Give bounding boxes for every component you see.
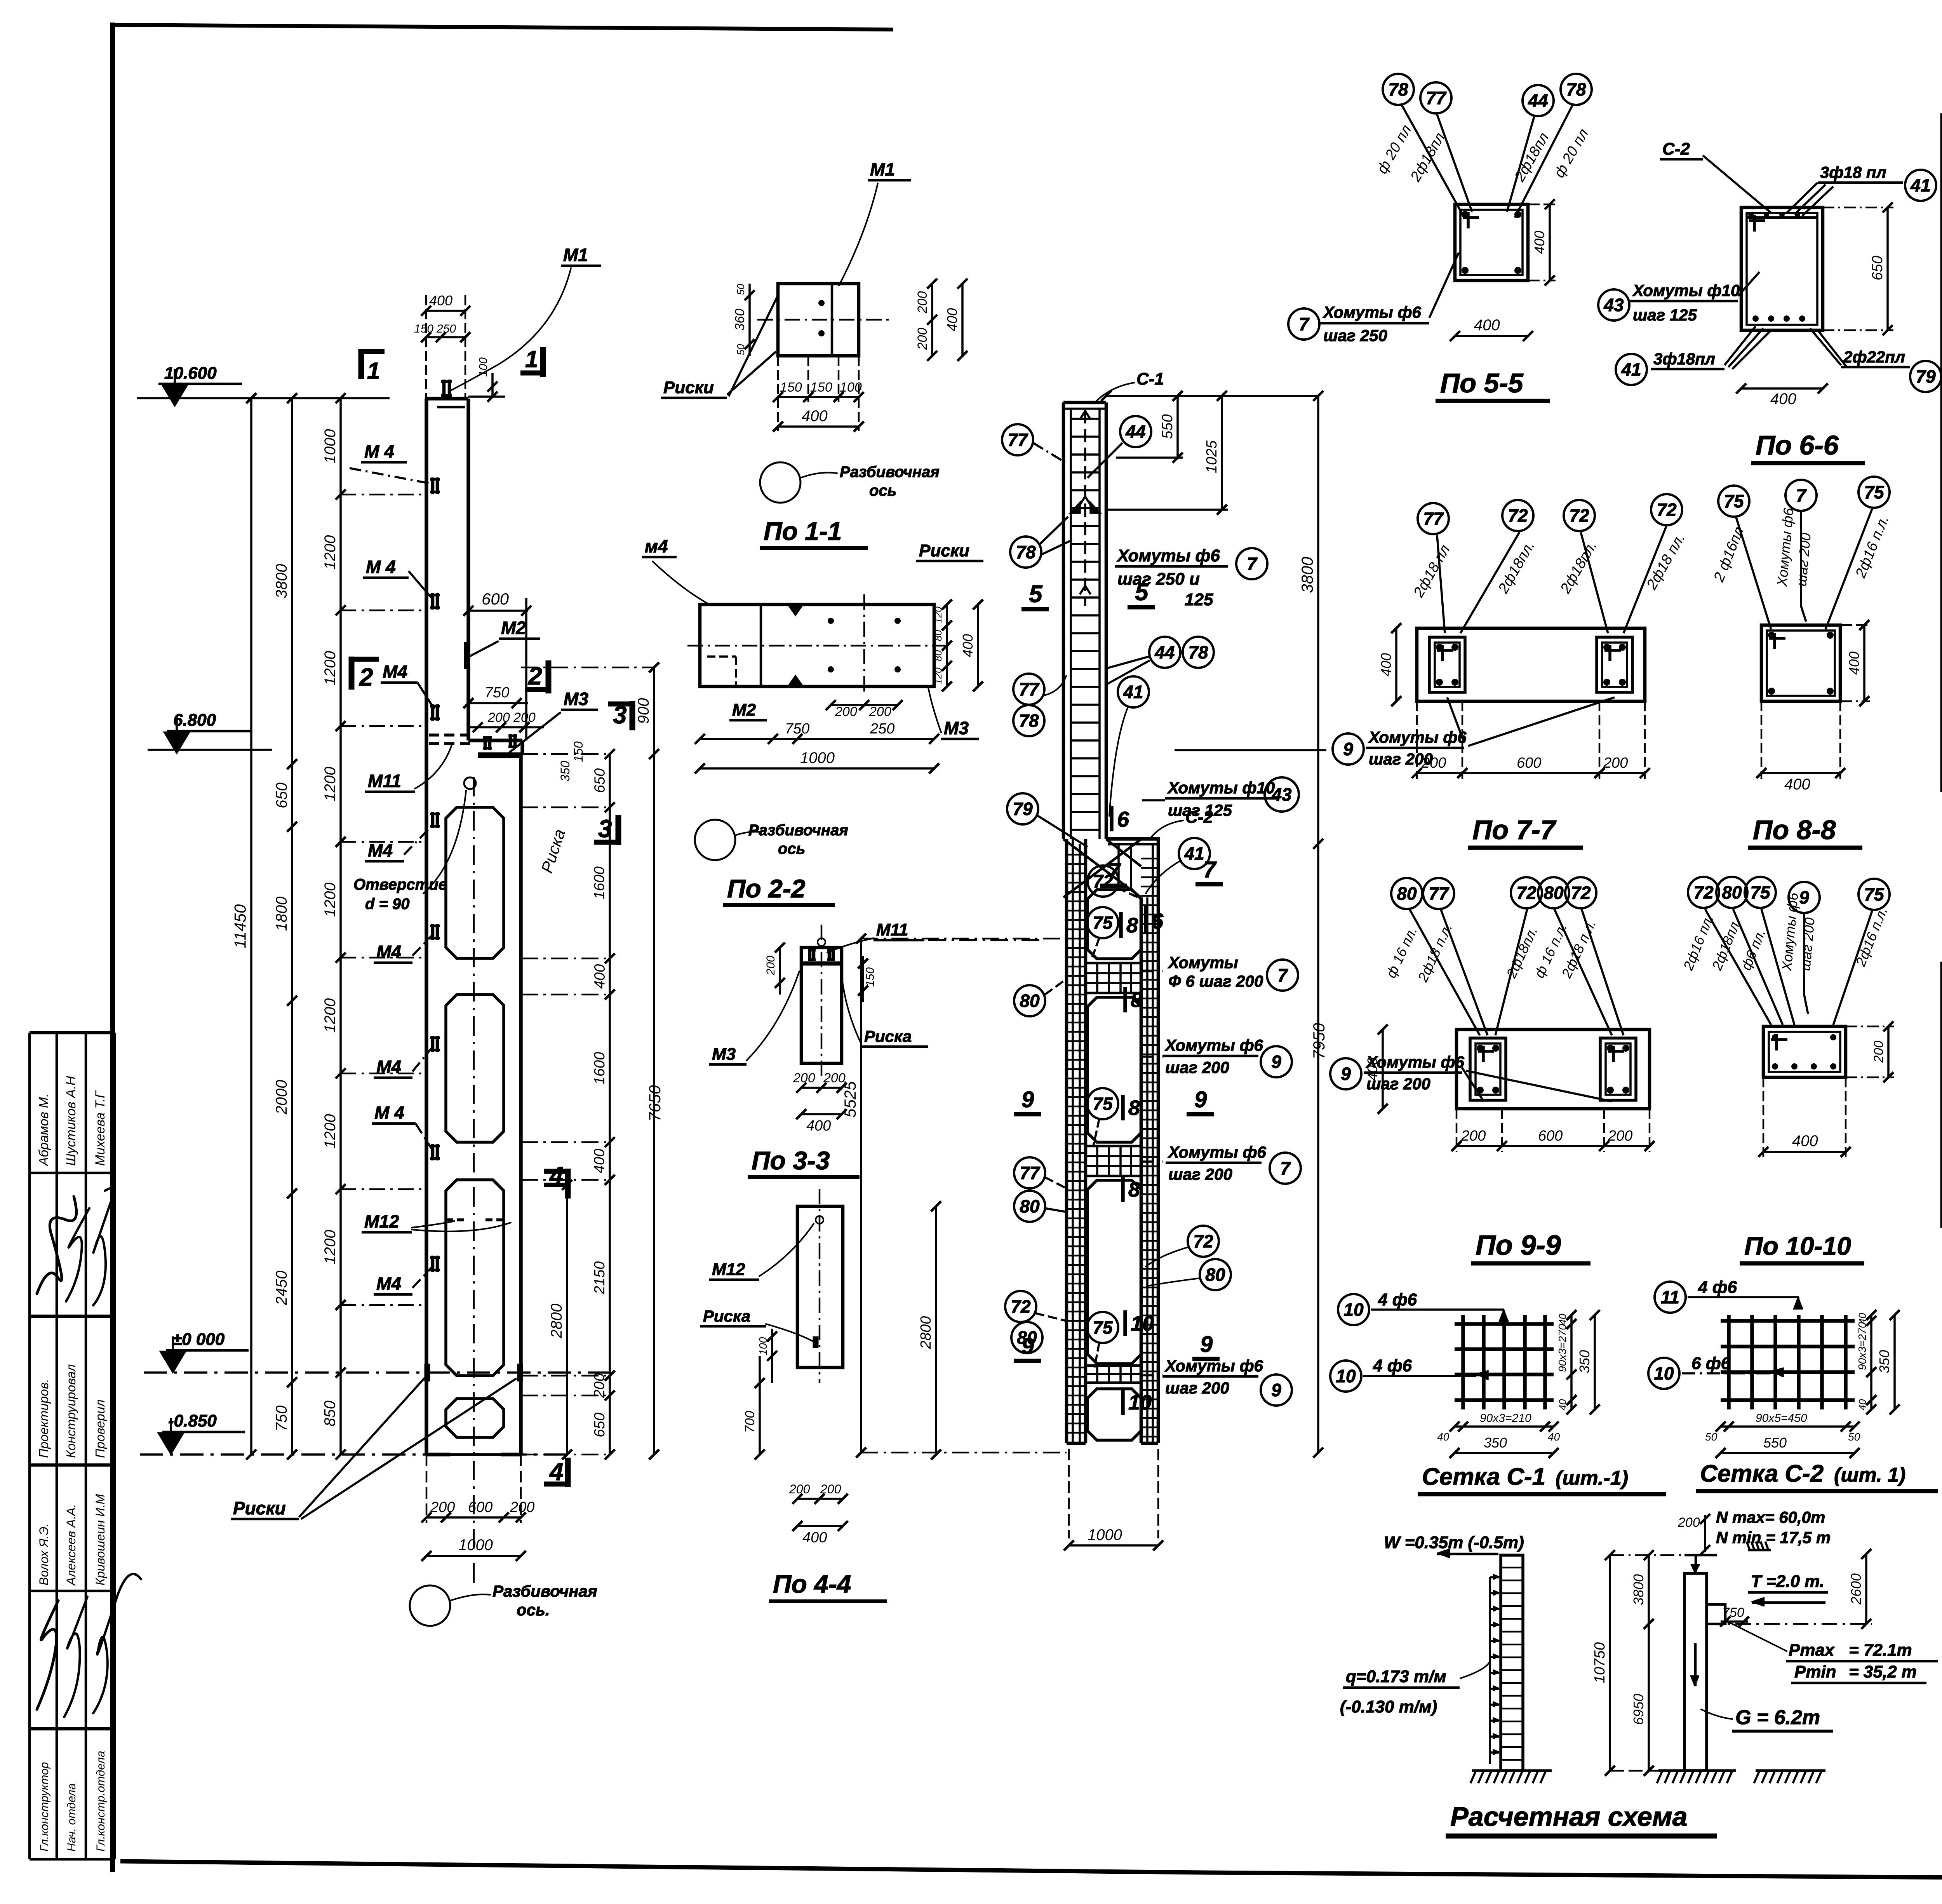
dim 900 right <box>653 667 655 754</box>
svg-text:М 4: М 4 <box>366 557 396 577</box>
dim chain 11450 <box>250 398 252 1455</box>
section mark 2 left <box>349 657 355 690</box>
svg-text:75: 75 <box>1093 913 1113 933</box>
svg-text:9: 9 <box>1341 1064 1351 1084</box>
svg-text:75: 75 <box>1864 884 1885 904</box>
Po 9-9 circles <box>1391 878 1422 909</box>
svg-text:1025: 1025 <box>1204 440 1220 473</box>
svg-text:41: 41 <box>1910 175 1930 195</box>
svg-text:120: 120 <box>932 606 944 624</box>
circle 41 b <box>1179 838 1210 869</box>
svg-text:75: 75 <box>1093 1094 1113 1114</box>
svg-text:5: 5 <box>1135 579 1149 606</box>
svg-text:77: 77 <box>1020 1163 1041 1183</box>
svg-text:7: 7 <box>1277 965 1288 985</box>
svg-text:4 ф6: 4 ф6 <box>1373 1356 1412 1375</box>
svg-text:Хомуты ф6: Хомуты ф6 <box>1164 1357 1263 1375</box>
svg-text:3ф18пл: 3ф18пл <box>1653 350 1715 368</box>
svg-text:М 4: М 4 <box>364 441 394 462</box>
schema dim 3800-6950 <box>1648 1555 1650 1771</box>
schema left pole <box>1501 1555 1523 1771</box>
svg-text:М3: М3 <box>712 1045 736 1064</box>
svg-text:шаг 125: шаг 125 <box>1633 306 1697 324</box>
Po 7-7 section <box>1417 628 1645 701</box>
svg-text:9: 9 <box>1271 1380 1281 1400</box>
svg-text:80: 80 <box>1397 883 1417 904</box>
svg-text:Проверил: Проверил <box>93 1399 107 1458</box>
svg-text:Проектиров.: Проектиров. <box>37 1379 51 1458</box>
top step 100 dim <box>468 395 505 398</box>
svg-text:М 4: М 4 <box>374 1103 404 1123</box>
setka C-1 bottom dims <box>1455 1425 1554 1428</box>
svg-text:М2: М2 <box>501 618 526 638</box>
svg-text:400: 400 <box>1474 317 1500 334</box>
svg-text:10: 10 <box>1336 1366 1356 1386</box>
svg-text:900: 900 <box>635 698 652 724</box>
svg-text:2800: 2800 <box>918 1316 934 1350</box>
svg-text:По 4-4: По 4-4 <box>773 1570 851 1598</box>
svg-text:650: 650 <box>592 1413 608 1437</box>
stirrup band 2 <box>1086 1146 1141 1176</box>
svg-text:6.800: 6.800 <box>173 711 216 730</box>
svg-text:М3: М3 <box>564 689 588 709</box>
svg-text:ось: ось <box>869 482 896 499</box>
svg-text:120: 120 <box>932 667 944 685</box>
setka C-2 circle 10 <box>1648 1358 1679 1389</box>
svg-text:М11: М11 <box>876 920 908 939</box>
branch rungs <box>1067 854 1086 856</box>
right chain D 650/1600/400/1600/400/2150/200/650 <box>609 754 611 1455</box>
svg-text:600: 600 <box>1538 1128 1563 1144</box>
svg-text:2000: 2000 <box>273 1080 290 1115</box>
svg-text:72: 72 <box>1571 883 1591 903</box>
svg-text:Разбивочная: Разбивочная <box>748 822 848 839</box>
Po 6-6 circle 41 top <box>1905 170 1936 201</box>
Po 3-3 right dim <box>862 956 864 1002</box>
svg-text:М4: М4 <box>383 662 407 682</box>
svg-text:40: 40 <box>1548 1431 1560 1443</box>
level line -0.850 dash-dot <box>140 1453 567 1456</box>
Po 10-10 section <box>1763 1026 1846 1077</box>
svg-text:150: 150 <box>810 380 832 395</box>
svg-text:Гл.конструктор: Гл.конструктор <box>38 1762 51 1852</box>
svg-text:200: 200 <box>1871 1041 1886 1063</box>
schema ground left <box>1472 1769 1552 1772</box>
section Po 4-4 body <box>797 1206 843 1367</box>
top extension lines <box>425 295 427 399</box>
svg-text:По 10-10: По 10-10 <box>1744 1232 1851 1260</box>
svg-text:79: 79 <box>1013 799 1033 819</box>
circles 44 78 pair <box>1149 637 1180 668</box>
M3 plate thick <box>478 753 522 758</box>
setka C-1 grid <box>1461 1315 1465 1409</box>
svg-text:80: 80 <box>1020 1196 1040 1216</box>
svg-text:150: 150 <box>780 380 802 395</box>
svg-text:8: 8 <box>1131 988 1142 1012</box>
svg-text:400: 400 <box>1784 776 1810 793</box>
svg-text:77: 77 <box>1423 509 1444 529</box>
column shaft outline upper <box>425 399 428 1455</box>
left branch ladder <box>1065 839 1068 1443</box>
svg-text:350: 350 <box>1876 1350 1892 1373</box>
svg-text:Pmin: Pmin <box>1794 1662 1836 1681</box>
schema console step <box>1707 1604 1725 1624</box>
Po 6-6 dim 400 <box>1741 387 1823 390</box>
svg-text:75: 75 <box>1750 882 1771 902</box>
svg-text:11450: 11450 <box>231 904 249 948</box>
Po 4-4 dims left <box>771 1329 773 1383</box>
ladder dim 1000 <box>1069 1544 1158 1547</box>
svg-text:400: 400 <box>802 1529 827 1546</box>
svg-text:200: 200 <box>1421 755 1446 771</box>
svg-text:10: 10 <box>1654 1363 1674 1383</box>
svg-text:7950: 7950 <box>1310 1023 1328 1059</box>
svg-text:90х5=450: 90х5=450 <box>1756 1412 1807 1425</box>
ladder bottom projections <box>1068 1449 1070 1538</box>
top dim 400 <box>426 310 465 312</box>
level line +-0.000 dash-dot <box>144 1371 610 1374</box>
svg-text:7: 7 <box>1247 554 1258 574</box>
circle 80 upper left <box>1014 985 1045 1016</box>
Po 6-6 circle 43 <box>1598 289 1629 321</box>
svg-text:1600: 1600 <box>592 1052 608 1085</box>
opening B <box>1088 997 1141 1142</box>
svg-text:40: 40 <box>1857 1399 1868 1410</box>
svg-text:75: 75 <box>1724 491 1744 511</box>
schema dim 10750 <box>1609 1555 1611 1771</box>
anchor marks on M3 plate <box>483 736 492 739</box>
schema 2600 dim <box>1865 1554 1867 1624</box>
dim 2800 lower right <box>566 1185 568 1455</box>
Po 6-6 circle 79 <box>1910 361 1941 392</box>
svg-text:М12: М12 <box>364 1211 399 1232</box>
level line 6.800 <box>148 749 272 751</box>
svg-text:Шустиков А.Н: Шустиков А.Н <box>64 1076 78 1166</box>
svg-text:43: 43 <box>1603 295 1624 315</box>
svg-text:8: 8 <box>1126 914 1138 937</box>
svg-text:шаг 200: шаг 200 <box>1165 1058 1229 1077</box>
svg-text:М2: М2 <box>732 700 756 719</box>
column right edge lower <box>519 754 523 1455</box>
svg-text:8: 8 <box>1128 1096 1140 1120</box>
svg-text:78: 78 <box>1188 642 1208 662</box>
svg-text:Волох Я.Э.: Волох Я.Э. <box>37 1523 51 1585</box>
svg-text:41: 41 <box>1123 682 1143 702</box>
setka C-1 circle 10 a <box>1338 1294 1369 1325</box>
setka C-2 bottom dims <box>1721 1425 1855 1428</box>
section mark 1 left <box>358 349 364 379</box>
homuty band2 label <box>1141 1056 1163 1058</box>
svg-text:М1: М1 <box>870 159 895 179</box>
svg-text:400: 400 <box>1846 652 1862 675</box>
dim 7950 <box>1317 844 1319 1453</box>
svg-text:10: 10 <box>1343 1300 1364 1320</box>
svg-text:750: 750 <box>1722 1605 1744 1620</box>
Po 4-4 dim right 2800 <box>935 1206 937 1455</box>
section mark 4 upper <box>565 1169 571 1198</box>
svg-text:По 9-9: По 9-9 <box>1476 1230 1561 1261</box>
svg-text:80: 80 <box>932 630 944 641</box>
svg-text:200: 200 <box>1677 1515 1700 1530</box>
svg-text:d = 90: d = 90 <box>365 895 410 913</box>
svg-text:Хомуты ф6: Хомуты ф6 <box>1366 1053 1465 1071</box>
schema W arrow <box>1437 1553 1498 1556</box>
svg-text:Сетка С-2: Сетка С-2 <box>1700 1460 1824 1487</box>
M4 anchor marks on left edge <box>430 478 440 481</box>
svg-text:650: 650 <box>1869 256 1886 280</box>
svg-text:По 8-8: По 8-8 <box>1753 815 1836 845</box>
Po 8-8 section <box>1761 625 1840 701</box>
homuty band3 label <box>1141 1160 1163 1163</box>
svg-text:400: 400 <box>806 1118 831 1134</box>
svg-text:72: 72 <box>1569 505 1589 526</box>
circle 72 a <box>1088 866 1119 897</box>
svg-text:10: 10 <box>1131 1312 1154 1335</box>
svg-text:М3: М3 <box>944 718 969 738</box>
svg-text:250: 250 <box>870 721 894 737</box>
svg-text:90х3=270: 90х3=270 <box>1556 1324 1568 1372</box>
svg-text:3: 3 <box>613 701 627 729</box>
svg-text:77: 77 <box>1429 883 1450 904</box>
svg-text:4: 4 <box>549 1458 564 1486</box>
frame bottom line <box>120 1861 1942 1883</box>
svg-text:150: 150 <box>571 741 585 762</box>
circle 78 left <box>1010 537 1041 568</box>
svg-text:По 7-7: По 7-7 <box>1472 815 1557 845</box>
svg-text:7: 7 <box>1108 859 1121 884</box>
Po 5-5 dim 400 <box>1455 335 1528 337</box>
section mark 3 upper <box>630 701 635 730</box>
circles 72 80 left lower <box>1005 1291 1036 1322</box>
circle 75 b <box>1087 1088 1118 1119</box>
opening 3 <box>446 1180 504 1376</box>
svg-text:4 ф6: 4 ф6 <box>1378 1290 1417 1309</box>
upper ladder outer <box>1062 402 1065 839</box>
svg-text:200: 200 <box>793 1071 815 1085</box>
svg-text:150: 150 <box>414 322 433 335</box>
svg-text:44: 44 <box>1125 422 1145 442</box>
anchor mark M1 top <box>441 380 452 383</box>
svg-text:78: 78 <box>1019 711 1039 731</box>
svg-text:М4: М4 <box>376 1057 401 1077</box>
svg-text:ось: ось <box>778 840 805 857</box>
svg-text:80: 80 <box>1722 882 1742 902</box>
junction verticals <box>1117 844 1120 890</box>
Po 1-1 right dims <box>931 284 933 356</box>
svg-text:4: 4 <box>549 1162 564 1190</box>
svg-text:1000: 1000 <box>458 1536 493 1554</box>
svg-text:72: 72 <box>1657 500 1677 520</box>
Po 10-10 circles <box>1688 877 1719 908</box>
svg-text:1200: 1200 <box>322 767 339 801</box>
riska marks at 0.000 <box>425 1364 430 1381</box>
svg-text:360: 360 <box>733 309 747 331</box>
svg-text:8: 8 <box>1128 1178 1140 1201</box>
svg-text:7650: 7650 <box>646 1085 664 1122</box>
svg-text:40: 40 <box>1557 1313 1568 1325</box>
svg-text:-0.850: -0.850 <box>168 1411 217 1430</box>
svg-text:72: 72 <box>1508 505 1528 526</box>
svg-text:9: 9 <box>1271 1052 1281 1072</box>
svg-text:350: 350 <box>1577 1350 1592 1373</box>
svg-text:шаг 250 и: шаг 250 и <box>1117 570 1200 589</box>
top dim line <box>1106 395 1318 397</box>
svg-text:9: 9 <box>1343 739 1353 759</box>
svg-text:125: 125 <box>1185 590 1213 609</box>
circle 9 right line <box>1175 749 1326 751</box>
svg-text:М4: М4 <box>368 840 393 861</box>
opening 4 <box>446 1399 504 1437</box>
svg-text:W =0.35т (-0.5т): W =0.35т (-0.5т) <box>1384 1533 1524 1552</box>
axis line to circle <box>473 777 475 1589</box>
svg-text:50: 50 <box>735 344 747 355</box>
opening 2 <box>446 995 504 1142</box>
svg-text:40: 40 <box>1437 1431 1450 1443</box>
circles 72 80 right <box>1188 1226 1219 1257</box>
svg-text:72: 72 <box>1693 882 1714 902</box>
svg-text:72: 72 <box>1193 1231 1213 1251</box>
svg-text:±0 000: ±0 000 <box>172 1330 225 1349</box>
svg-text:77: 77 <box>1426 88 1447 108</box>
signatures scribbles band 2 <box>37 1601 58 1709</box>
svg-text:400: 400 <box>1364 1057 1380 1081</box>
schema q arrows <box>1490 1576 1499 1578</box>
svg-text:М4: М4 <box>376 942 401 962</box>
svg-text:N min = 17,5 т: N min = 17,5 т <box>1716 1528 1831 1547</box>
svg-text:9: 9 <box>1021 1087 1034 1112</box>
svg-text:40: 40 <box>1557 1399 1568 1410</box>
Po 2-2 dims 750 250 <box>700 738 934 740</box>
svg-text:По 6-6: По 6-6 <box>1756 430 1839 460</box>
Po 6-6 dim 650 <box>1886 207 1889 330</box>
svg-text:600: 600 <box>482 590 509 608</box>
Po 1-1 left dims <box>748 284 751 356</box>
stirrup band 3 <box>1086 1366 1141 1383</box>
C-2 cap <box>1106 837 1160 841</box>
svg-text:80: 80 <box>932 650 944 661</box>
svg-text:50: 50 <box>1848 1431 1860 1443</box>
column bottom edges <box>426 1453 450 1456</box>
section mark 2 right <box>546 660 552 693</box>
svg-text:78: 78 <box>1016 542 1036 562</box>
svg-text:Хомуты ф6: Хомуты ф6 <box>1164 1036 1263 1054</box>
svg-text:1: 1 <box>525 346 538 372</box>
svg-text:2: 2 <box>528 662 542 690</box>
svg-text:90х3=210: 90х3=210 <box>1480 1412 1531 1425</box>
svg-text:1200: 1200 <box>322 1230 339 1265</box>
svg-text:9: 9 <box>1200 1332 1213 1357</box>
svg-text:600: 600 <box>468 1499 492 1516</box>
homuty f6 250 top right <box>1288 308 1319 340</box>
branch bottoms <box>1067 1442 1086 1445</box>
svg-text:1200: 1200 <box>322 1114 339 1149</box>
svg-text:шаг 200: шаг 200 <box>1168 1165 1232 1183</box>
svg-text:80: 80 <box>1544 883 1564 903</box>
svg-text:М1: М1 <box>563 245 588 265</box>
Po 7-7 homuty label <box>1333 733 1364 765</box>
svg-text:6 ф6: 6 ф6 <box>1691 1354 1731 1373</box>
svg-text:200: 200 <box>835 704 857 719</box>
svg-text:М4: М4 <box>376 1273 401 1294</box>
circle 79 <box>1007 793 1038 824</box>
right branch ladder <box>1140 897 1143 1443</box>
level line 10.600 <box>137 397 390 399</box>
svg-text:По 3-3: По 3-3 <box>752 1146 830 1175</box>
opening C <box>1088 1180 1141 1364</box>
signature table grid <box>28 1033 31 1859</box>
Po 1-1 axis circle <box>760 462 800 503</box>
svg-text:200: 200 <box>869 704 891 719</box>
razbivochnaya axis circle <box>410 1585 450 1626</box>
M2 plate thick <box>464 642 469 669</box>
svg-text:Алексеев А.А.: Алексеев А.А. <box>64 1504 78 1586</box>
console step <box>468 739 522 742</box>
dim 550 <box>1176 396 1179 458</box>
svg-text:9: 9 <box>1021 1334 1034 1359</box>
svg-text:200: 200 <box>592 1373 608 1398</box>
homuty band4 label <box>1141 1374 1163 1376</box>
svg-text:Разбивочная: Разбивочная <box>840 463 940 481</box>
svg-text:Гл.констр.отдела: Гл.констр.отдела <box>94 1751 107 1852</box>
svg-text:72: 72 <box>1516 883 1537 903</box>
svg-text:Ф 6 шаг 200: Ф 6 шаг 200 <box>1168 972 1263 990</box>
svg-text:6: 6 <box>1117 807 1129 831</box>
svg-text:200: 200 <box>1461 1128 1486 1144</box>
svg-text:1000: 1000 <box>322 429 339 464</box>
svg-text:шаг 250: шаг 250 <box>1323 326 1387 345</box>
section Po 2-2 body <box>700 604 934 686</box>
frame top line <box>110 25 893 30</box>
setka C-2 right dims <box>1870 1315 1872 1409</box>
svg-text:1200: 1200 <box>322 998 339 1033</box>
schema right pole top <box>1695 1555 1697 1573</box>
svg-text:Кривошеин И.М: Кривошеин И.М <box>93 1494 107 1585</box>
svg-text:90х3=270: 90х3=270 <box>1856 1322 1868 1370</box>
svg-text:ось.: ось. <box>517 1601 550 1619</box>
svg-text:(-0.130 т/м): (-0.130 т/м) <box>1340 1697 1437 1716</box>
circle 44 upper <box>1120 416 1151 447</box>
riski leaders <box>299 1377 425 1517</box>
svg-text:7: 7 <box>1299 314 1310 334</box>
svg-text:5525: 5525 <box>841 1081 859 1118</box>
svg-text:100: 100 <box>757 1337 769 1355</box>
Po 4-4 dims below <box>797 1498 843 1500</box>
section Po 3-3 body <box>801 948 842 1063</box>
svg-text:650: 650 <box>273 782 291 808</box>
svg-text:9: 9 <box>1194 1087 1207 1112</box>
section mark 3 lower <box>616 815 621 845</box>
top dims 150 250 <box>426 336 465 338</box>
svg-text:200: 200 <box>915 328 930 350</box>
setka C-2 grid <box>1727 1315 1731 1409</box>
svg-text:3800: 3800 <box>1298 557 1316 593</box>
svg-text:q=0.173 т/м: q=0.173 т/м <box>1346 1667 1446 1686</box>
svg-text:400: 400 <box>960 634 976 657</box>
svg-text:400: 400 <box>1770 390 1796 408</box>
opening 1 <box>446 807 504 958</box>
Po 8-8 dim right 400 <box>1863 625 1865 701</box>
svg-text:Нач. отдела: Нач. отдела <box>65 1783 78 1852</box>
schema right pole <box>1684 1573 1707 1771</box>
svg-text:1000: 1000 <box>800 749 835 766</box>
svg-text:10: 10 <box>1128 1391 1152 1414</box>
Po 5-5 dim right <box>1549 204 1551 280</box>
Po 1-1 dims below <box>778 396 859 398</box>
svg-text:400: 400 <box>1792 1132 1818 1150</box>
svg-text:1200: 1200 <box>322 651 339 686</box>
hole d90 <box>464 777 476 789</box>
svg-text:200: 200 <box>513 710 536 725</box>
